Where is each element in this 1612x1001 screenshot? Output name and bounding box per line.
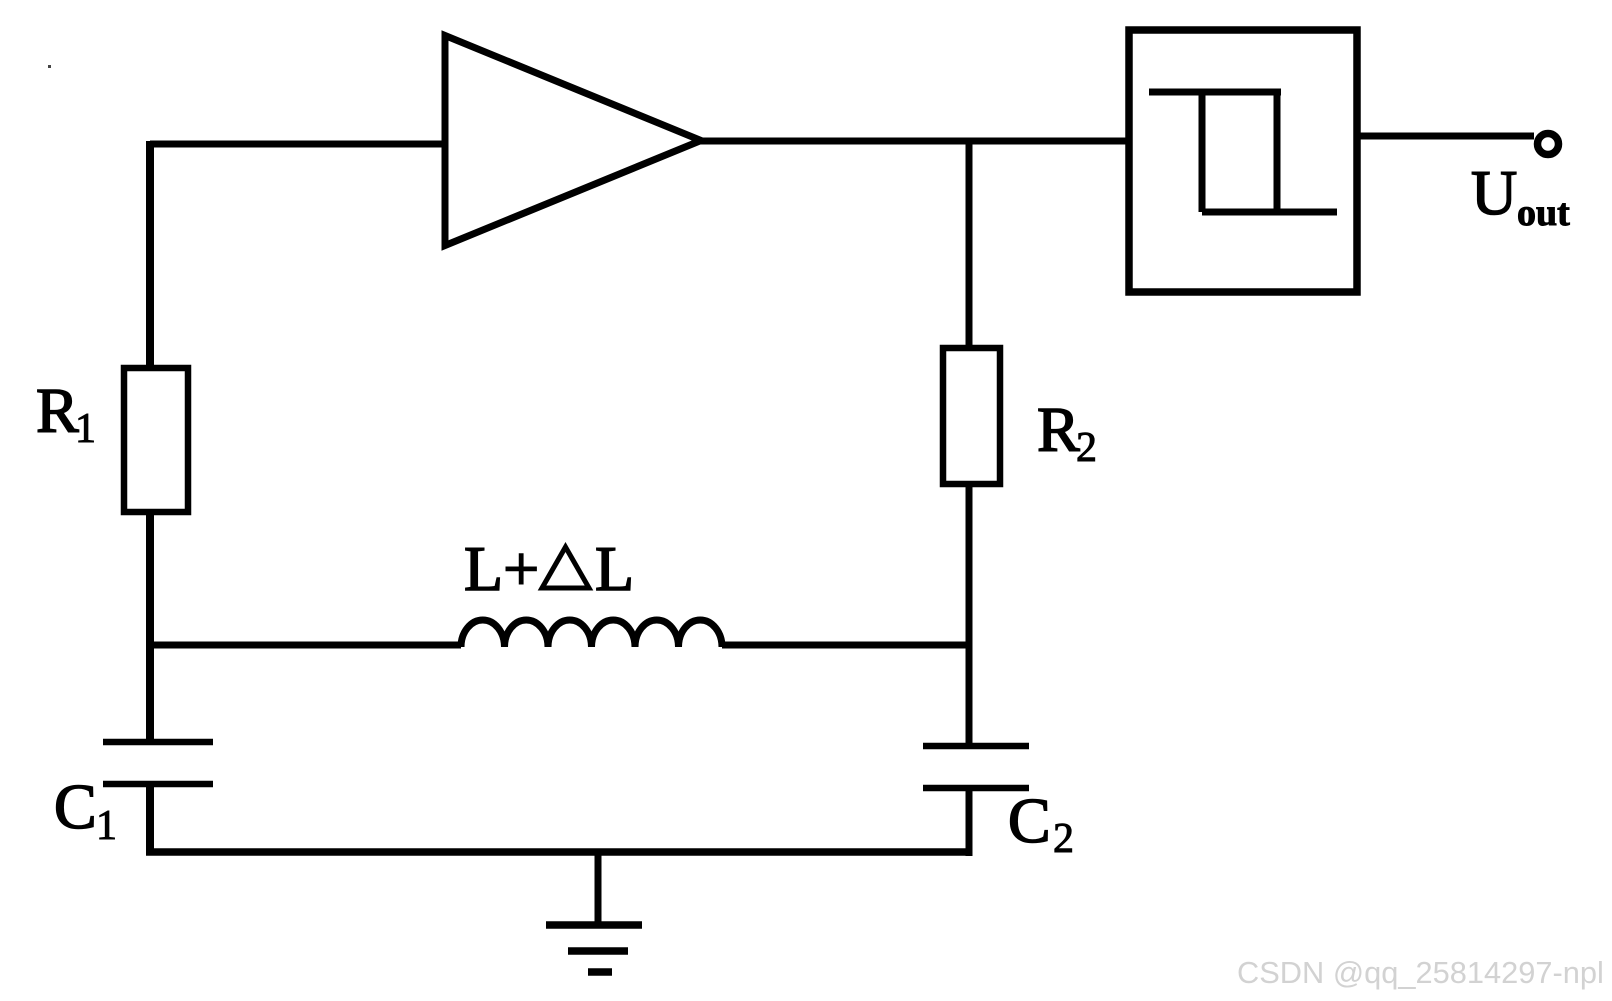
wire right vertical upper: [966, 141, 973, 350]
wire C2 bottom to bottom rail: [966, 790, 973, 856]
capacitor C1 bottom plate: [103, 781, 213, 788]
wire output to terminal: [1357, 133, 1534, 140]
capacitor C2 bottom plate: [923, 785, 1029, 792]
schmitt trigger box U1: [1129, 30, 1357, 292]
wire mid horizontal right: [722, 642, 969, 649]
svg-text:1: 1: [75, 406, 96, 452]
svg-text:R: R: [1037, 394, 1080, 465]
hysteresis bottom line: [1202, 209, 1337, 216]
resistor R1: [124, 368, 188, 512]
resistor R2: [943, 348, 1000, 484]
hysteresis left vertical: [1199, 92, 1206, 212]
svg-text:U: U: [1471, 157, 1517, 228]
svg-text:R: R: [36, 375, 79, 446]
svg-text:L+: L+: [464, 533, 539, 604]
wire mid horizontal left: [150, 642, 461, 649]
wire input left horizontal: [150, 141, 445, 148]
wire C1 bottom to bottom rail: [146, 786, 154, 852]
svg-text:2: 2: [1076, 425, 1097, 471]
terminal circle: [1538, 134, 1559, 155]
wire R1 bottom to C1: [146, 512, 154, 740]
label delta triangle: [542, 547, 589, 588]
svg-text:C: C: [1008, 785, 1051, 856]
wire amplifier output to box: [699, 138, 1132, 145]
svg-text:1: 1: [96, 803, 117, 849]
capacitor C1 top plate: [103, 739, 213, 746]
capacitor C2 top plate: [923, 743, 1029, 750]
ground stub: [595, 852, 602, 923]
speck top-left: [48, 65, 51, 68]
ground bar 3: [588, 968, 612, 976]
ground bar 2: [568, 947, 628, 955]
ground bar 1: [546, 921, 642, 929]
hysteresis top line: [1149, 89, 1281, 96]
wire bottom rail: [146, 848, 969, 856]
hysteresis right vertical: [1274, 92, 1281, 212]
svg-text:CSDN @qq_25814297-npl: CSDN @qq_25814297-npl: [1237, 955, 1604, 990]
wire left vertical upper: [146, 141, 154, 371]
svg-text:C: C: [54, 771, 97, 842]
inductor L coil: [461, 620, 722, 647]
svg-text:L: L: [595, 533, 634, 604]
svg-text:out: out: [1517, 192, 1570, 234]
op-amp amplifier triangle: [445, 36, 701, 246]
svg-text:2: 2: [1053, 816, 1074, 862]
wire R2 bottom to C2: [966, 484, 973, 744]
